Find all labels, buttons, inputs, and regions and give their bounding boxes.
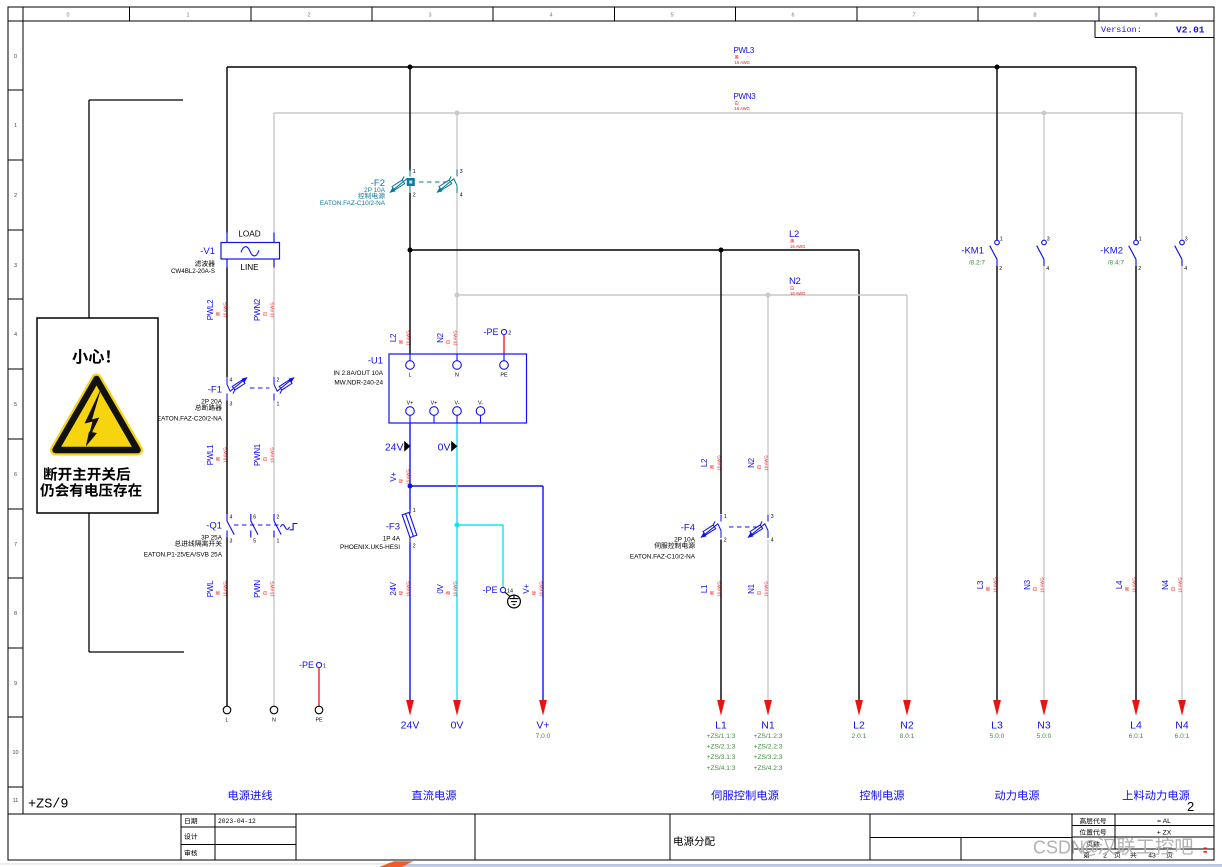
svg-text:0V: 0V xyxy=(438,442,451,454)
svg-text:7: 7 xyxy=(912,13,915,19)
svg-text:L3: L3 xyxy=(991,720,1003,732)
net label PWL on wire x=227 xyxy=(206,580,227,597)
breaker F4 servo control power xyxy=(630,514,774,561)
net label N3 on wire x=1044 xyxy=(1023,577,1044,592)
svg-text:1: 1 xyxy=(724,514,727,520)
svg-text:24V: 24V xyxy=(385,442,404,454)
svg-text:L2: L2 xyxy=(789,229,799,240)
svg-text:-F3: -F3 xyxy=(386,522,400,533)
svg-text:7.0:0: 7.0:0 xyxy=(536,733,551,740)
terminal L xyxy=(223,706,231,723)
terminal arrow L4 xyxy=(1129,700,1144,740)
wire L4 bus drop to KM2 xyxy=(1135,67,1137,240)
power supply U1 xyxy=(333,354,526,423)
svg-text:L: L xyxy=(226,718,229,724)
svg-text:6: 6 xyxy=(253,515,256,521)
net label L2 on wire x=410 xyxy=(389,330,410,345)
svg-text:N2: N2 xyxy=(747,457,756,467)
net label V+ on wire x=543 xyxy=(522,581,543,596)
net label L3 on wire x=997 xyxy=(976,577,997,592)
svg-text:4: 4 xyxy=(1046,266,1049,272)
warning sign box xyxy=(37,318,158,513)
svg-text:V-: V- xyxy=(454,401,459,407)
wire N3 bus drop to KM1 pole 2 xyxy=(1043,113,1045,240)
net label N4 on wire x=1182 xyxy=(1161,577,1182,592)
wire L2 bus drop to F2 xyxy=(409,67,411,171)
wire L main bus PWL3 xyxy=(227,66,1136,68)
watermark logo fragment xyxy=(379,861,413,867)
contactor contact KM2 xyxy=(1100,237,1187,273)
wire L2 F2 to U1 pin L xyxy=(409,193,411,354)
junction node N3 top bus xyxy=(1042,111,1047,116)
svg-text:1: 1 xyxy=(413,169,416,175)
net label L1 on wire x=721 xyxy=(700,581,721,596)
svg-text:2: 2 xyxy=(1138,266,1141,272)
svg-text:2: 2 xyxy=(508,331,511,337)
svg-text:L3: L3 xyxy=(976,580,985,589)
svg-text:2: 2 xyxy=(724,538,727,544)
svg-text:V+: V+ xyxy=(431,401,438,407)
wire N4 bus drop to KM2 pole 2 xyxy=(1181,113,1183,240)
svg-text:N2: N2 xyxy=(900,720,914,732)
svg-text:16 AWG: 16 AWG xyxy=(405,581,410,596)
svg-text:2: 2 xyxy=(999,266,1002,272)
svg-text:N: N xyxy=(455,373,459,379)
net label PWN2 on wire x=274 xyxy=(253,298,274,321)
junction node N2 top bus xyxy=(455,111,460,116)
svg-text:PHOENIX.UK5-HESI: PHOENIX.UK5-HESI xyxy=(340,544,400,551)
wire L3 KM1 to terminal L3 xyxy=(996,266,998,701)
svg-text:9: 9 xyxy=(1154,13,1157,19)
net label N2 on wire x=768 xyxy=(747,455,768,470)
svg-text:+ZS/9: +ZS/9 xyxy=(28,798,69,813)
svg-text:5: 5 xyxy=(14,402,17,408)
terminal arrow N3 xyxy=(1037,700,1052,740)
svg-text:-U1: -U1 xyxy=(368,356,383,367)
wire PWN Q1-terminal N xyxy=(273,538,275,707)
svg-text:8: 8 xyxy=(1033,13,1036,19)
junction node L2 top bus xyxy=(408,65,413,70)
svg-text:L2: L2 xyxy=(853,720,865,732)
svg-text:3: 3 xyxy=(1047,237,1050,243)
svg-text:16 AWG: 16 AWG xyxy=(538,581,543,596)
svg-text:3: 3 xyxy=(230,402,233,408)
svg-text:6: 6 xyxy=(791,13,794,19)
svg-text:4: 4 xyxy=(230,378,233,384)
wire L1 F4 to terminal L1 xyxy=(720,540,722,701)
svg-text:N4: N4 xyxy=(1161,579,1170,589)
svg-text:PWL2: PWL2 xyxy=(206,299,215,320)
wire PWL Q1-terminal L xyxy=(226,538,228,707)
wire L4 KM2 to terminal L4 xyxy=(1135,266,1137,701)
net label N1 on wire x=768 xyxy=(747,581,768,596)
svg-text:3: 3 xyxy=(14,263,17,269)
svg-text:3P 25A: 3P 25A xyxy=(201,535,223,542)
svg-text:-Q1: -Q1 xyxy=(206,521,222,532)
svg-text:5.0:0: 5.0:0 xyxy=(990,733,1005,740)
svg-text:0V: 0V xyxy=(451,720,464,732)
wire PWL2 V1-F1 xyxy=(226,268,228,378)
svg-text:V+: V+ xyxy=(522,584,531,594)
svg-text:4: 4 xyxy=(1184,266,1187,272)
terminal arrow 0V xyxy=(451,700,464,732)
svg-text:-PE: -PE xyxy=(299,660,314,670)
wire 24V F3 to terminal 24V xyxy=(409,543,411,701)
potential arrow 24V xyxy=(385,441,411,454)
wire PE red to terminal PE xyxy=(318,668,320,707)
svg-text:0V: 0V xyxy=(436,583,445,593)
wire N main bus PWN3 xyxy=(274,112,1182,114)
terminal arrow N4 xyxy=(1175,700,1190,740)
svg-text:EATON.FAZ-C10/2-NA: EATON.FAZ-C10/2-NA xyxy=(630,554,696,561)
svg-text:16 AWG: 16 AWG xyxy=(1039,577,1044,592)
svg-text:14: 14 xyxy=(507,589,513,595)
svg-text:-V1: -V1 xyxy=(200,246,215,257)
svg-text:24V: 24V xyxy=(389,581,398,595)
wire PE red to U1 pin PE xyxy=(503,335,505,354)
terminal PE xyxy=(315,706,323,723)
PE terminal 1 xyxy=(299,660,326,670)
wire PWN1 F1-Q1 xyxy=(273,401,275,515)
svg-text:16 AWG: 16 AWG xyxy=(269,447,274,462)
svg-text:V+: V+ xyxy=(389,472,398,482)
wire N3 KM1 to terminal N3 xyxy=(1043,266,1045,701)
junction node V+ branch xyxy=(408,484,413,489)
svg-text:N: N xyxy=(272,718,276,724)
svg-text:1: 1 xyxy=(14,123,17,129)
svg-text:2P 20A: 2P 20A xyxy=(201,399,223,406)
bottom page strip xyxy=(0,861,1222,867)
wire 0V U1 output to terminal 0V xyxy=(456,423,458,701)
svg-text:EATON.P1-25/EA/SVB 25A: EATON.P1-25/EA/SVB 25A xyxy=(144,552,223,559)
svg-text:+ZS/3.2:3: +ZS/3.2:3 xyxy=(754,754,783,761)
svg-text:-PE: -PE xyxy=(483,327,498,337)
svg-text:N1: N1 xyxy=(747,583,756,593)
svg-text:L1: L1 xyxy=(715,720,727,732)
PE terminal 14 with earth ground xyxy=(482,585,520,608)
svg-text:16 AWG: 16 AWG xyxy=(790,244,805,249)
svg-text:N3: N3 xyxy=(1023,579,1032,589)
svg-text:16 AWG: 16 AWG xyxy=(405,330,410,345)
title block xyxy=(8,814,1214,860)
wire N2 distribution bus xyxy=(457,294,907,296)
svg-text:1: 1 xyxy=(277,402,280,408)
svg-text:PWN2: PWN2 xyxy=(253,298,262,321)
svg-text:-F4: -F4 xyxy=(681,523,695,534)
svg-text:V+: V+ xyxy=(536,720,549,732)
svg-text:PWL3: PWL3 xyxy=(734,46,755,55)
svg-text:L: L xyxy=(409,373,412,379)
net label 0V on wire x=457 xyxy=(436,581,457,596)
svg-text:2.0:1: 2.0:1 xyxy=(852,733,867,740)
wire V+ branch horizontal xyxy=(410,485,543,487)
svg-text:6.0:1: 6.0:1 xyxy=(1129,733,1144,740)
svg-text:1: 1 xyxy=(186,13,189,19)
net label PWL1 on wire x=227 xyxy=(206,444,227,465)
svg-text:0: 0 xyxy=(14,54,17,60)
svg-text:EATON.FAZ-C10/2-NA: EATON.FAZ-C10/2-NA xyxy=(320,200,386,207)
wire N2 F2 to U1 pin N xyxy=(456,193,458,354)
svg-text:16 AWG: 16 AWG xyxy=(222,302,227,317)
svg-text:8: 8 xyxy=(14,611,17,617)
svg-text:2: 2 xyxy=(277,378,280,384)
svg-text:PE: PE xyxy=(316,718,323,724)
svg-text:4: 4 xyxy=(230,515,233,521)
net label PWN on wire x=274 xyxy=(253,580,274,598)
svg-text:N2: N2 xyxy=(436,332,445,342)
svg-text:0: 0 xyxy=(66,13,69,19)
svg-text:N4: N4 xyxy=(1175,720,1189,732)
terminal arrow N2 xyxy=(900,700,915,740)
svg-text:16 AWG: 16 AWG xyxy=(1177,577,1182,592)
svg-text:2: 2 xyxy=(413,544,416,550)
svg-text:+ZS/3.1:3: +ZS/3.1:3 xyxy=(707,754,736,761)
svg-text:3: 3 xyxy=(771,514,774,520)
svg-text:+ZS/1.2:3: +ZS/1.2:3 xyxy=(754,733,783,740)
junction node N1 distribution bus xyxy=(766,293,771,298)
net label N2 bus xyxy=(789,276,805,296)
svg-text:10: 10 xyxy=(12,750,18,756)
svg-text:16 AWG: 16 AWG xyxy=(222,447,227,462)
net label PWL2 on wire x=227 xyxy=(206,299,227,320)
terminal arrow V+ xyxy=(536,700,551,740)
net label L4 on wire x=1136 xyxy=(1115,577,1136,592)
svg-text:IN 2.8A/OUT 10A: IN 2.8A/OUT 10A xyxy=(333,370,383,377)
svg-text:4: 4 xyxy=(460,193,463,199)
svg-text:16 AWG: 16 AWG xyxy=(992,577,997,592)
svg-text:-KM1: -KM1 xyxy=(961,246,984,257)
svg-text:+ZS/4.2:3: +ZS/4.2:3 xyxy=(754,765,783,772)
svg-text:16 AWG: 16 AWG xyxy=(735,60,750,65)
svg-text:5: 5 xyxy=(670,13,673,19)
svg-text:N2: N2 xyxy=(789,276,801,287)
wire 0V branch to PE link xyxy=(457,524,503,526)
svg-text:4: 4 xyxy=(14,332,17,338)
section label 直流电源 xyxy=(412,790,456,800)
svg-text:16 AWG: 16 AWG xyxy=(1131,577,1136,592)
svg-text:+ZS/1.1:3: +ZS/1.1:3 xyxy=(707,733,736,740)
terminal arrow L2 xyxy=(852,700,867,740)
wire L drop to V1 LOAD xyxy=(226,67,228,233)
terminal arrow L1 xyxy=(707,700,736,772)
svg-text:V-: V- xyxy=(478,401,483,407)
svg-text:= AL: = AL xyxy=(1157,818,1171,825)
svg-text:16 AWG: 16 AWG xyxy=(716,455,721,470)
svg-text:1: 1 xyxy=(1000,237,1003,243)
svg-text:N3: N3 xyxy=(1037,720,1051,732)
wire L2 drop to terminal L2 xyxy=(858,250,860,701)
section label 伺服控制电源 xyxy=(711,790,778,800)
wire L2 distribution bus xyxy=(410,249,859,251)
svg-text:16 AWG: 16 AWG xyxy=(452,581,457,596)
svg-text:16 AWG: 16 AWG xyxy=(735,106,750,111)
wire V+ U1 output to F3 xyxy=(409,423,411,510)
svg-text:@: @ xyxy=(1081,838,1099,858)
svg-text:2: 2 xyxy=(14,193,17,199)
svg-text:1: 1 xyxy=(277,539,280,545)
disconnect switch Q1 xyxy=(144,514,298,559)
svg-text:16 AWG: 16 AWG xyxy=(452,330,457,345)
wire V+ drop to terminal V+ xyxy=(542,486,544,701)
svg-text:3: 3 xyxy=(230,539,233,545)
svg-text:2: 2 xyxy=(413,193,416,199)
svg-text:-PE: -PE xyxy=(482,585,497,595)
svg-text:+ZS/4.1:3: +ZS/4.1:3 xyxy=(707,765,736,772)
terminal arrow L3 xyxy=(990,700,1005,740)
svg-text:1: 1 xyxy=(1139,237,1142,243)
net label V+ on wire x=410 xyxy=(389,469,410,484)
wire N1 F4 to terminal N1 xyxy=(767,540,769,701)
svg-text:2023-04-12: 2023-04-12 xyxy=(218,818,256,825)
svg-text:CSDN: CSDN xyxy=(1033,838,1084,858)
svg-text:16 AWG: 16 AWG xyxy=(405,469,410,484)
svg-text:PWN: PWN xyxy=(253,580,262,598)
wire PWL1 F1-Q1 xyxy=(226,401,228,515)
svg-text:+ZS/2.2:3: +ZS/2.2:3 xyxy=(754,744,783,751)
breaker F1 xyxy=(157,377,295,423)
junction node 0V branch xyxy=(455,523,460,528)
svg-text:1: 1 xyxy=(413,508,416,514)
wire N2 bus drop to F2 pole 2 xyxy=(456,113,458,171)
svg-text:16 AWG: 16 AWG xyxy=(269,581,274,596)
svg-text:3: 3 xyxy=(1185,237,1188,243)
svg-text:16 AWG: 16 AWG xyxy=(269,302,274,317)
svg-text:CW4BL2-20A-S: CW4BL2-20A-S xyxy=(171,268,215,275)
svg-text:8.0:1: 8.0:1 xyxy=(900,733,915,740)
breaker F2 control power xyxy=(320,169,463,207)
terminal arrow 24V xyxy=(401,700,420,732)
svg-text:1: 1 xyxy=(323,664,326,670)
svg-text:11: 11 xyxy=(13,798,19,804)
svg-text:16 AWG: 16 AWG xyxy=(763,455,768,470)
svg-text:/8.2:7: /8.2:7 xyxy=(969,260,986,267)
junction node L2 distribution bus xyxy=(408,248,413,253)
svg-text:L4: L4 xyxy=(1130,720,1142,732)
svg-text:PWN3: PWN3 xyxy=(734,92,757,101)
svg-text:5: 5 xyxy=(253,539,256,545)
svg-text:EATON.FAZ-C20/2-NA: EATON.FAZ-C20/2-NA xyxy=(157,416,223,423)
svg-text:V+: V+ xyxy=(407,401,414,407)
net label N2 on wire x=457 xyxy=(436,330,457,345)
svg-text:-KM2: -KM2 xyxy=(1100,246,1123,257)
svg-text:16 AWG: 16 AWG xyxy=(763,581,768,596)
svg-text:L1: L1 xyxy=(700,584,709,593)
net label PWN3 xyxy=(734,92,757,111)
svg-text:PE: PE xyxy=(500,373,508,379)
svg-text:Version:: Version: xyxy=(1101,25,1142,35)
svg-text:V2.01: V2.01 xyxy=(1176,25,1205,36)
wire N4 KM2 to terminal N4 xyxy=(1181,266,1183,701)
svg-text:-F1: -F1 xyxy=(208,385,222,396)
svg-text:3: 3 xyxy=(460,169,463,175)
svg-text:PWL1: PWL1 xyxy=(206,444,215,465)
svg-text:2: 2 xyxy=(1187,799,1194,814)
svg-text:3: 3 xyxy=(428,13,431,19)
svg-text:16 AWG: 16 AWG xyxy=(790,291,805,296)
svg-text:6: 6 xyxy=(14,472,17,478)
PE terminal 2 xyxy=(483,327,511,337)
junction node L1 distribution bus xyxy=(719,248,724,253)
svg-text:MW.NDR-240-24: MW.NDR-240-24 xyxy=(334,380,383,387)
svg-text:PWL: PWL xyxy=(206,580,215,597)
fuse F3 xyxy=(340,508,417,551)
svg-text:2: 2 xyxy=(307,13,310,19)
svg-text:16 AWG: 16 AWG xyxy=(222,581,227,596)
section label 控制电源 xyxy=(860,790,904,800)
terminal N xyxy=(270,706,278,723)
svg-text:4: 4 xyxy=(549,13,552,19)
net label PWN1 on wire x=274 xyxy=(253,443,274,466)
svg-text:5.0:0: 5.0:0 xyxy=(1037,733,1052,740)
net label L2 on wire x=721 xyxy=(700,455,721,470)
svg-text:L2: L2 xyxy=(700,458,709,467)
filter V1 xyxy=(171,230,280,275)
svg-text:L4: L4 xyxy=(1115,580,1124,589)
section label 动力电源 xyxy=(995,790,1039,800)
net label PWL3 xyxy=(734,46,755,65)
junction node L3 top bus xyxy=(995,65,1000,70)
svg-text:24V: 24V xyxy=(401,720,420,732)
svg-text:16 AWG: 16 AWG xyxy=(716,581,721,596)
svg-text:1P 4A: 1P 4A xyxy=(383,536,401,543)
wire N2 drop to terminal N2 xyxy=(906,295,908,701)
svg-text:2: 2 xyxy=(277,515,280,521)
net label 24V on wire x=410 xyxy=(389,581,410,596)
potential arrow 0V xyxy=(438,441,458,454)
svg-text:PWN1: PWN1 xyxy=(253,443,262,466)
svg-text:6.0:1: 6.0:1 xyxy=(1175,733,1190,740)
svg-text:4: 4 xyxy=(771,538,774,544)
wire N drop to V1 LOAD xyxy=(273,113,275,233)
svg-text:+ ZX: + ZX xyxy=(1157,830,1172,837)
svg-text:+ZS/2.1:3: +ZS/2.1:3 xyxy=(707,744,736,751)
net label L2 bus xyxy=(789,229,805,249)
junction node N2 distribution bus xyxy=(455,293,460,298)
svg-text:LINE: LINE xyxy=(240,263,259,272)
svg-text:N1: N1 xyxy=(761,720,775,732)
terminal arrow N1 xyxy=(754,700,783,772)
wire N2 drop to F4 pole 2 xyxy=(767,295,769,514)
incoming supply bracket xyxy=(89,99,183,101)
svg-text:9: 9 xyxy=(14,681,17,687)
svg-text:LOAD: LOAD xyxy=(238,230,260,239)
svg-text:/8.4:7: /8.4:7 xyxy=(1108,260,1125,267)
wire L2 drop to F4 xyxy=(720,250,722,514)
section label 电源进线 xyxy=(229,790,272,800)
contactor contact KM1 xyxy=(961,237,1049,273)
section label 上料动力电源 xyxy=(1123,790,1190,800)
wire L3 bus drop to KM1 xyxy=(996,67,998,240)
svg-text:L2: L2 xyxy=(389,333,398,342)
svg-text:7: 7 xyxy=(14,542,17,548)
wire PWN2 V1-F1 xyxy=(273,268,275,378)
version box xyxy=(1095,21,1214,38)
